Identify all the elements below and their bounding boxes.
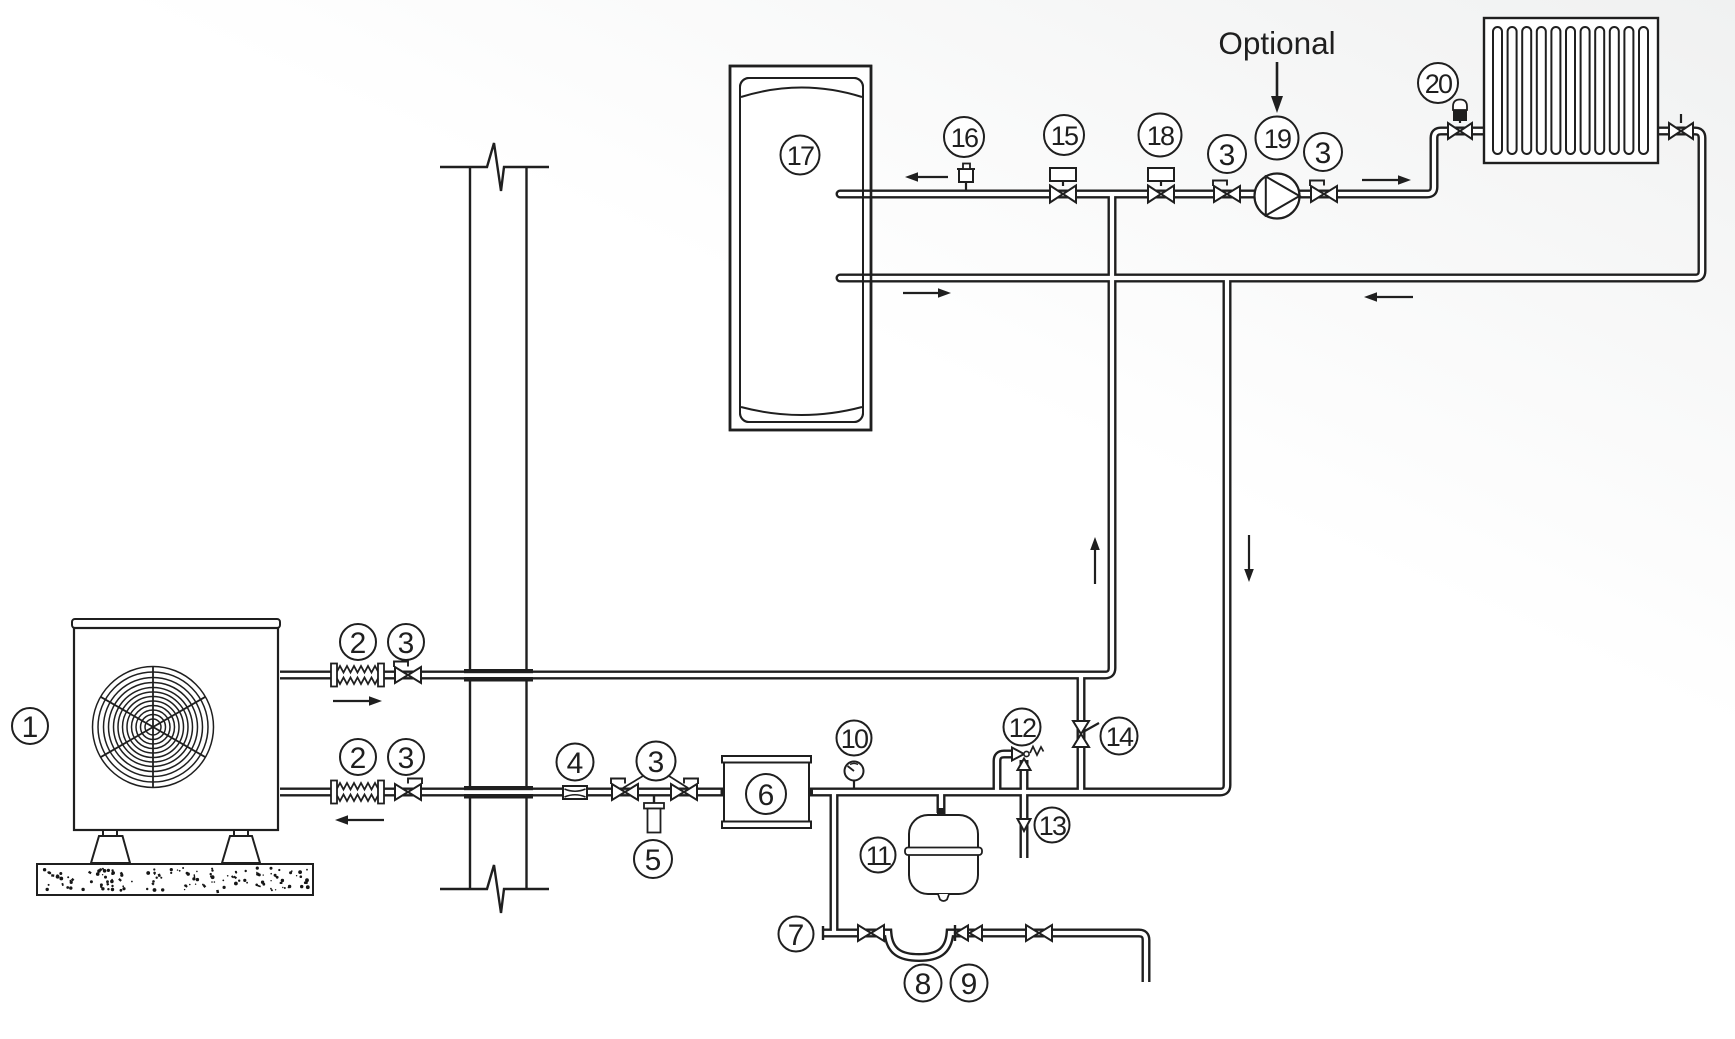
shut-off valve 3 (pump inlet) xyxy=(1213,181,1240,203)
label 2 xyxy=(340,739,376,775)
heat pump unit 1 xyxy=(72,619,280,830)
check valve 9 xyxy=(955,925,982,941)
svg-text:3: 3 xyxy=(398,627,415,660)
wire: pipe outlines xyxy=(280,131,1702,982)
shut-off valve 3 (HP supply) xyxy=(394,662,421,684)
svg-text:15: 15 xyxy=(1051,121,1078,151)
svg-text:5: 5 xyxy=(645,844,662,877)
flow arrow left (radiator return) xyxy=(1364,292,1413,302)
label 15 xyxy=(1044,115,1084,155)
svg-text:4: 4 xyxy=(567,747,584,780)
circulation pump 19 xyxy=(1255,174,1300,219)
label 5 xyxy=(634,840,672,878)
radiator return valve xyxy=(1669,114,1693,139)
flexible joint 2 (supply) xyxy=(331,664,384,687)
plate heat exchanger 6 xyxy=(721,756,814,828)
flow arrow left (to tank) xyxy=(905,172,948,182)
label 10 xyxy=(837,721,872,756)
wall sleeve top pipe xyxy=(464,669,533,682)
label 14 xyxy=(1101,718,1138,755)
label 18 xyxy=(1139,114,1182,157)
magnetic filter 4 xyxy=(563,786,587,799)
wire: pipe cores xyxy=(280,131,1702,982)
svg-text:3: 3 xyxy=(648,746,665,779)
svg-text:6: 6 xyxy=(758,779,775,812)
heat pump feet xyxy=(91,830,260,863)
svg-text:3: 3 xyxy=(398,742,415,775)
svg-text:2: 2 xyxy=(350,742,367,775)
label 9 xyxy=(951,965,988,1002)
motorized valve 18 xyxy=(1148,168,1174,203)
svg-text:19: 19 xyxy=(1264,124,1291,154)
motorized valve 15 xyxy=(1050,168,1076,203)
concrete base pad xyxy=(37,864,313,895)
svg-text:17: 17 xyxy=(787,141,814,171)
svg-text:18: 18 xyxy=(1147,121,1174,151)
flow arrow left (HP return) xyxy=(335,815,384,825)
leader lines to valves (label 3) xyxy=(623,776,688,788)
label 19 xyxy=(1256,117,1299,160)
shut-off valve 14 xyxy=(1073,721,1099,747)
drain valve 13 xyxy=(1018,819,1031,831)
fill valve xyxy=(1026,925,1052,941)
svg-text:2: 2 xyxy=(350,627,367,660)
svg-text:16: 16 xyxy=(951,123,978,153)
label 7 xyxy=(779,917,814,953)
label 2 xyxy=(340,624,376,660)
wall xyxy=(440,143,549,913)
flow arrow down (riser) xyxy=(1244,535,1254,582)
svg-text:14: 14 xyxy=(1106,722,1134,752)
shut-off valve 3 (HP return) xyxy=(395,779,422,801)
svg-text:20: 20 xyxy=(1425,69,1452,99)
svg-text:11: 11 xyxy=(866,841,891,871)
shut-off valve (strainer left) xyxy=(611,779,638,801)
pressure gauge 10 xyxy=(845,762,864,789)
label 11 xyxy=(861,838,896,873)
svg-text:10: 10 xyxy=(841,724,868,754)
label 8 xyxy=(905,965,942,1002)
label 12 xyxy=(1004,709,1041,746)
label 17 xyxy=(781,136,820,175)
flow arrow right (from tank) xyxy=(903,288,951,298)
buffer tank walls over pipes xyxy=(730,66,871,430)
label 16 xyxy=(944,117,984,157)
label 20 xyxy=(1418,63,1458,103)
flow arrow right (to radiator) xyxy=(1362,175,1411,185)
radiator xyxy=(1484,18,1658,163)
svg-text:9: 9 xyxy=(961,968,978,1001)
flow arrow right (HP supply) xyxy=(333,696,382,706)
svg-text:8: 8 xyxy=(915,968,932,1001)
svg-text:7: 7 xyxy=(788,919,805,952)
strainer 5 xyxy=(644,796,664,833)
svg-text:13: 13 xyxy=(1039,811,1066,841)
svg-text:12: 12 xyxy=(1009,713,1036,743)
label 1 heat pump xyxy=(12,708,48,744)
shut-off valve 3 (pump outlet) xyxy=(1310,181,1337,203)
safety valve 12 xyxy=(1012,747,1044,771)
label 3 xyxy=(1208,135,1246,173)
label 6 xyxy=(746,774,786,814)
svg-text:1: 1 xyxy=(22,711,39,744)
shut-off valve (strainer right) xyxy=(671,779,698,801)
label 3 xyxy=(388,624,424,660)
drain valve 8 xyxy=(858,925,884,941)
buffer tank 17 xyxy=(730,66,871,430)
label 3 xyxy=(637,742,676,781)
label 13 xyxy=(1035,808,1070,843)
drain connection end cap xyxy=(822,926,824,940)
svg-text:Optional: Optional xyxy=(1218,25,1335,61)
label 3 xyxy=(388,739,424,775)
svg-text:3: 3 xyxy=(1315,137,1332,170)
label 3 xyxy=(1304,133,1342,171)
wall sleeve bottom pipe xyxy=(464,786,533,799)
expansion vessel 11 xyxy=(905,808,982,901)
label 4 xyxy=(557,744,594,781)
svg-text:3: 3 xyxy=(1219,139,1236,172)
air vent 16 xyxy=(957,164,975,192)
flexible joint 2 (return) xyxy=(331,781,384,804)
optional pointer arrow xyxy=(1271,62,1283,113)
flow arrow up (riser) xyxy=(1090,537,1100,584)
thermostatic radiator valve 20 xyxy=(1448,100,1472,140)
